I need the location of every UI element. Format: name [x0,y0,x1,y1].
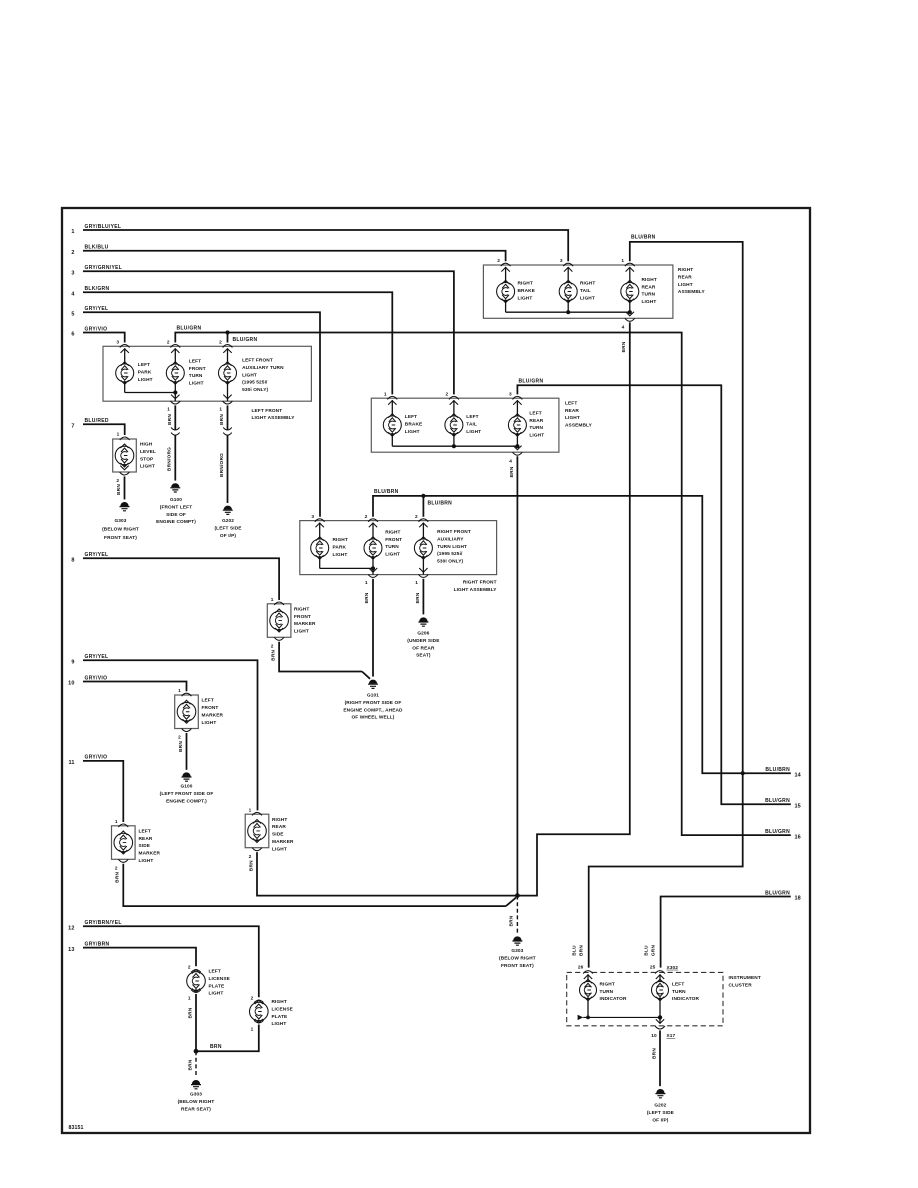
svg-text:(UNDER SIDE: (UNDER SIDE [407,638,439,644]
housing [267,604,291,638]
svg-text:OF WHEEL WELL): OF WHEEL WELL) [351,715,394,721]
left front turn pin 1 BRN to G100 [167,382,181,481]
inner bus left front assembly [125,390,178,394]
svg-text:1: 1 [167,407,170,413]
svg-text:INDICATOR: INDICATOR [600,996,627,1002]
bulb symbol [166,362,184,384]
label [642,277,657,305]
svg-text:PLATE: PLATE [272,1014,288,1020]
svg-text:BRN: BRN [167,414,173,425]
svg-text:SIDE: SIDE [139,843,151,849]
svg-text:TURN: TURN [385,544,399,550]
svg-text:LIGHT: LIGHT [529,433,544,439]
svg-text:ENGINE COMPT): ENGINE COMPT) [156,519,196,525]
lamp LEFT REAR TURN LIGHT [508,391,544,446]
lamp RIGHT FRONT AUXILIARY (right front assembly) [414,514,470,565]
svg-text:9: 9 [71,660,74,666]
svg-text:FRONT SEAT): FRONT SEAT) [104,535,137,541]
svg-text:3: 3 [71,271,74,277]
svg-text:G303: G303 [511,948,523,954]
svg-text:PLATE: PLATE [209,983,225,989]
svg-text:LICENSE: LICENSE [209,976,230,982]
svg-text:1: 1 [249,807,252,813]
wire 10 GRY/VIO [68,675,186,691]
wire 6 GRY/VIO [71,326,124,342]
label [189,358,206,386]
svg-text:GRN: GRN [651,945,657,957]
cluster BRN wire to G202 [652,1030,661,1086]
bulb symbol [219,362,237,384]
lamp right turn indicator [580,974,627,1017]
svg-text:83151: 83151 [69,1125,84,1131]
svg-text:X17: X17 [667,1033,676,1039]
label [518,281,536,302]
svg-text:AUXILIARY TURN: AUXILIARY TURN [242,365,284,371]
bulb symbol [248,819,267,842]
lamp LEFT FRONT AUXILIARY TURN (left front assembly) [219,340,285,394]
svg-text:2: 2 [497,258,500,264]
svg-text:SIDE: SIDE [272,832,284,838]
svg-text:GRY/VIO: GRY/VIO [85,675,108,681]
lamp RIGHT REAR TURN LIGHT [621,258,657,312]
svg-text:1: 1 [365,580,368,586]
wire [505,267,507,312]
svg-text:BRN: BRN [579,945,585,956]
svg-text:4: 4 [622,325,625,331]
svg-text:G202: G202 [222,518,234,524]
svg-text:3: 3 [560,258,563,264]
svg-text:BLU/GRN: BLU/GRN [177,326,202,332]
right rear side marker BRN wire to G303 [257,852,517,896]
inner ground bus of left rear assembly [392,444,519,448]
svg-text:LEFT FRONT: LEFT FRONT [242,358,273,364]
pin 1 [249,807,262,815]
svg-text:GRY/GRN/YEL: GRY/GRN/YEL [85,265,123,271]
svg-text:BRN: BRN [116,484,122,495]
label [333,537,348,558]
lamp LEFT BRAKE LIGHT [383,391,422,446]
svg-text:2: 2 [178,735,181,741]
svg-text:REAR: REAR [642,284,656,290]
label [385,529,402,557]
BRN label [115,871,121,882]
svg-text:(RIGHT FRONT SIDE OF: (RIGHT FRONT SIDE OF [345,700,402,706]
lamp RIGHT PARK (right front assembly) [311,514,348,559]
label [138,362,153,383]
bulb symbol [114,831,133,854]
svg-text:2: 2 [251,995,254,1001]
svg-text:LIGHT ASSEMBLY: LIGHT ASSEMBLY [252,415,296,421]
svg-text:BRN: BRN [271,649,277,660]
svg-text:BLU/BRN: BLU/BRN [428,500,453,506]
label BLU/BRN at pin 26 [571,945,584,956]
svg-text:G100: G100 [170,497,182,503]
ground G100 (left front side of engine compt) [160,772,214,804]
left rear side marker BRN wire to G303 [123,864,516,906]
pin 4 right rear assembly, BRN wire down [517,312,634,896]
svg-text:G206: G206 [417,631,429,637]
label [242,358,284,394]
bulb symbol [383,414,401,436]
label [405,414,423,435]
svg-text:LIGHT: LIGHT [139,858,154,864]
svg-text:RIGHT: RIGHT [518,281,533,287]
label [272,817,294,853]
svg-text:RIGHT: RIGHT [294,606,309,612]
svg-text:GRY/YEL: GRY/YEL [85,654,109,660]
svg-text:BRN/ORG: BRN/ORG [219,453,225,477]
instrument cluster box [567,972,761,1025]
bulb symbol [364,537,382,559]
connector X302 pins 26 and 25 [578,964,678,973]
svg-text:LEVEL: LEVEL [140,449,156,455]
lamp right license plate light [249,995,292,1032]
svg-text:LIGHT: LIGHT [385,552,400,558]
svg-text:2: 2 [219,340,222,346]
svg-text:STOP: STOP [140,456,153,462]
svg-text:SIDE OF: SIDE OF [166,512,186,518]
label BLU/GRN at left front assembly [177,326,258,343]
pin 3 [311,514,324,527]
svg-text:BRN/ORG: BRN/ORG [167,447,173,471]
pin 4 left rear assembly, BRN wire down to G303 [509,446,523,896]
svg-text:BRN: BRN [219,414,225,425]
pin 2 [178,729,191,741]
bulb symbol [414,537,432,559]
svg-text:LEFT FRONT: LEFT FRONT [252,408,283,414]
pin 3 [509,391,522,404]
bulb symbol [497,280,515,302]
high level stop light [113,432,156,472]
BRN label [248,860,254,871]
svg-text:BLU/BRN: BLU/BRN [765,767,790,773]
pin 2 [219,340,232,353]
svg-text:GRY/VIO: GRY/VIO [85,326,108,332]
bulb symbol [621,280,639,302]
wire [227,348,229,364]
BRN label [271,649,277,660]
svg-text:LIGHT: LIGHT [272,1021,287,1027]
svg-text:RIGHT: RIGHT [678,267,693,273]
svg-text:MARKER: MARKER [202,712,224,718]
svg-text:LIGHT: LIGHT [565,415,580,421]
svg-text:1: 1 [115,819,118,825]
lamp LEFT TAIL LIGHT [445,391,481,446]
svg-text:1: 1 [251,1026,254,1032]
svg-text:BLU/GRN: BLU/GRN [765,829,790,835]
svg-text:CLUSTER: CLUSTER [729,982,753,988]
node G303 junction (below right front seat) [515,893,520,898]
svg-text:BRN: BRN [509,915,515,926]
svg-text:ASSEMBLY: ASSEMBLY [678,289,706,295]
svg-text:RIGHT: RIGHT [600,981,615,987]
svg-text:1: 1 [178,688,181,694]
pin 3 [116,340,129,353]
wire 5 GRY/YEL [71,306,320,517]
svg-text:15: 15 [795,803,801,809]
label [202,698,224,726]
svg-text:RIGHT: RIGHT [642,277,657,283]
right park light bottom jumper [319,557,321,568]
svg-text:BRN: BRN [210,1044,222,1050]
svg-text:REAR: REAR [272,824,286,830]
lamp RIGHT TAIL LIGHT [559,258,595,312]
svg-text:ENGINE COMPT.): ENGINE COMPT.) [166,798,207,804]
stop light pin 2 BRN to G303 [116,466,129,500]
ground G100 (front left side of engine compt) [156,483,196,525]
svg-text:GRY/YEL: GRY/YEL [85,306,109,312]
svg-text:BRAKE: BRAKE [405,421,423,427]
label BLU/BRN at right front assembly [374,489,452,506]
pin 2 [167,340,180,353]
svg-text:2: 2 [415,514,418,520]
wire 14 BLU/BRN (right turn feed from cluster) [373,494,802,779]
svg-text:LICENSE: LICENSE [272,1006,293,1012]
svg-text:LIGHT: LIGHT [518,295,533,301]
inner bus right front assembly [320,566,375,570]
svg-text:G303: G303 [114,518,126,524]
svg-text:LIGHT: LIGHT [202,720,217,726]
svg-text:LIGHT: LIGHT [209,991,224,997]
svg-text:TURN: TURN [642,292,656,298]
wire [453,400,455,446]
ground G303 (below right rear seat) [178,1080,215,1112]
cluster internal bus and arrow [578,1015,663,1020]
svg-text:TAIL: TAIL [466,421,477,427]
svg-text:OF REAR: OF REAR [412,645,435,651]
svg-text:G303: G303 [190,1092,202,1098]
ground G303 (below right front seat) [102,502,139,541]
svg-text:REAR SEAT): REAR SEAT) [181,1106,211,1112]
svg-text:RIGHT: RIGHT [580,281,595,287]
pin 2 [415,514,428,527]
svg-text:LIGHT: LIGHT [272,846,287,852]
svg-text:G202: G202 [654,1103,666,1109]
pin 2 [249,848,262,860]
svg-text:BLK/GRN: BLK/GRN [85,286,110,292]
svg-text:(1995 525i/: (1995 525i/ [437,551,463,557]
svg-text:RIGHT: RIGHT [272,999,287,1005]
svg-text:12: 12 [68,925,74,931]
ground G303 (below right front seat) mid [499,936,536,968]
svg-text:BRN: BRN [248,860,254,871]
svg-text:REAR: REAR [529,418,543,424]
wire [629,267,631,312]
wire [422,523,424,539]
svg-text:BLU/GRN: BLU/GRN [765,890,790,896]
svg-text:18: 18 [795,896,801,902]
node: BLU/BRN junction on wire 14 [741,771,745,775]
svg-text:(FRONT LEFT: (FRONT LEFT [160,504,192,510]
svg-text:BRN: BRN [178,741,184,752]
lamp left license plate light [187,964,230,1001]
svg-text:1: 1 [117,432,120,438]
svg-text:LEFT: LEFT [189,358,201,364]
bulb symbol [508,414,526,436]
svg-text:26: 26 [578,964,584,970]
svg-text:LEFT: LEFT [202,698,214,704]
svg-text:(LEFT SIDE: (LEFT SIDE [647,1110,674,1116]
diagram number 83151 [69,1125,84,1131]
svg-text:X302: X302 [667,965,679,971]
svg-text:BLU/GRN: BLU/GRN [765,798,790,804]
wire [319,523,321,539]
svg-text:TURN: TURN [672,989,686,995]
svg-text:2: 2 [188,964,191,970]
wire 16 BLU/GRN (left front turn) [175,330,801,840]
svg-text:OF I/P): OF I/P) [220,533,236,539]
svg-text:3: 3 [509,391,512,397]
connector X17 pin 10 [651,1017,675,1039]
right front light assembly box [300,521,498,593]
label [294,606,316,634]
svg-text:LEFT: LEFT [209,969,221,975]
svg-text:2: 2 [167,340,170,346]
svg-text:REAR: REAR [565,408,579,414]
svg-text:10: 10 [68,681,74,687]
lamp left turn indicator [652,974,700,1017]
svg-text:1: 1 [71,229,74,235]
lamp left front marker light [175,688,224,752]
svg-text:LIGHT: LIGHT [333,552,348,558]
svg-text:LIGHT: LIGHT [189,381,204,387]
svg-text:BLU/GRN: BLU/GRN [233,337,258,343]
housing [112,826,136,860]
svg-text:7: 7 [71,424,74,430]
pin 2 [271,637,284,649]
wire 3 GRY/GRN/YEL [71,265,454,394]
svg-text:BRN: BRN [509,466,515,477]
svg-text:MARKER: MARKER [294,621,316,627]
svg-text:BRN: BRN [115,871,121,882]
lamp right rear side marker light [245,807,294,871]
pin 2 [365,514,378,527]
label [580,281,595,302]
svg-text:2: 2 [71,250,74,256]
svg-text:LIGHT: LIGHT [140,464,155,470]
svg-text:PARK: PARK [333,544,347,550]
label [437,529,471,565]
svg-text:LEFT: LEFT [139,828,151,834]
svg-text:8: 8 [71,557,74,563]
housing [175,695,199,729]
wire 11 GRY/VIO [68,755,123,822]
wire [372,523,374,539]
wire [124,348,126,364]
svg-text:6: 6 [71,332,74,338]
svg-text:BLU/BRN: BLU/BRN [631,235,656,241]
label [466,414,481,435]
wire [516,400,518,446]
svg-text:FRONT: FRONT [385,537,402,543]
pin 1 [271,597,284,605]
svg-text:HIGH: HIGH [140,442,153,448]
svg-text:BRAKE: BRAKE [518,288,536,294]
svg-text:1: 1 [271,597,274,603]
svg-text:TAIL: TAIL [580,288,591,294]
svg-text:AUXILIARY: AUXILIARY [437,536,464,542]
inner ground bus of right rear assembly [506,310,632,314]
right front turn pin 1 BRN to G101 [364,557,378,677]
svg-text:INDICATOR: INDICATOR [672,996,699,1002]
lamp LEFT PARK (left front assembly) [116,340,153,385]
right license BRN wire down and west [196,1025,259,1052]
label [529,410,544,438]
svg-text:1: 1 [621,258,624,264]
svg-text:SEAT): SEAT) [416,653,431,659]
left front marker BRN wire to G100 [186,733,188,770]
svg-text:REAR: REAR [678,274,692,280]
svg-text:INSTRUMENT: INSTRUMENT [729,975,761,981]
pin 2 [115,859,128,871]
svg-text:530i ONLY): 530i ONLY) [242,387,268,393]
svg-text:1: 1 [219,407,222,413]
svg-text:5: 5 [71,311,74,317]
svg-text:LIGHT: LIGHT [642,299,657,305]
bulb symbol [559,280,577,302]
bulb symbol [445,414,463,436]
svg-text:RIGHT: RIGHT [333,537,348,543]
svg-text:10: 10 [651,1033,657,1039]
svg-text:LIGHT: LIGHT [466,429,481,435]
svg-text:(LEFT SIDE: (LEFT SIDE [214,525,241,531]
svg-text:GRY/BRN/YEL: GRY/BRN/YEL [85,920,122,926]
svg-text:GRY/BLU/YEL: GRY/BLU/YEL [85,224,122,230]
lamp RIGHT BRAKE LIGHT [497,258,535,312]
svg-text:FRONT SEAT): FRONT SEAT) [501,963,534,969]
wire 4 BLK/GRN [71,286,392,394]
svg-text:(LEFT FRONT SIDE OF: (LEFT FRONT SIDE OF [160,791,214,797]
svg-text:BLU/BRN: BLU/BRN [374,489,399,495]
lamp right front marker light [267,597,316,661]
ground G202 (left side of I/P) cluster [647,1089,674,1123]
svg-text:ASSEMBLY: ASSEMBLY [565,423,593,429]
svg-text:MARKER: MARKER [272,839,294,845]
svg-text:BLU: BLU [643,945,649,956]
svg-text:REAR: REAR [139,836,153,842]
svg-text:MARKER: MARKER [139,851,161,857]
ground G206 (under side of rear seat) [407,617,439,658]
bulb symbol [270,609,289,632]
svg-text:LEFT: LEFT [405,414,417,420]
svg-text:LIGHT: LIGHT [580,295,595,301]
svg-text:TURN: TURN [529,425,543,431]
svg-text:2: 2 [446,391,449,397]
svg-text:2: 2 [249,854,252,860]
svg-text:2: 2 [271,644,274,650]
svg-text:BRN: BRN [621,341,627,352]
svg-text:LEFT: LEFT [138,362,150,368]
dashed BRN wire to ground G303 [509,896,518,934]
wire 9 GRY/YEL [71,654,257,810]
left park light bottom jumper [124,382,126,393]
svg-text:LIGHT: LIGHT [294,629,309,635]
svg-text:3: 3 [311,514,314,520]
bulb symbol [177,700,196,723]
pin 2 [446,391,459,404]
svg-text:TURN: TURN [600,989,614,995]
pin 2 [497,258,510,271]
wire 13 GRY/BRN [68,941,196,966]
svg-text:LIGHT: LIGHT [678,282,693,288]
svg-text:25: 25 [650,964,656,970]
svg-text:BRN: BRN [187,1007,193,1018]
wire 2 BLK/BLU [71,245,505,262]
svg-text:BRN: BRN [364,592,370,603]
svg-text:OF I/P): OF I/P) [652,1117,668,1123]
svg-text:LEFT: LEFT [565,400,577,406]
wire BLU/BRN right rear turn to cluster pin 26 [589,235,743,968]
